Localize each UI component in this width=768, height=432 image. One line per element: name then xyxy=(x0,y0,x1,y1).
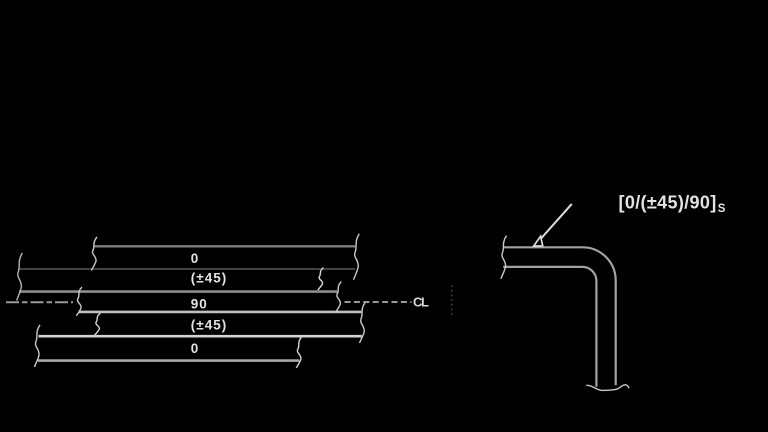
svg-text:0: 0 xyxy=(191,341,200,356)
ply4 right break xyxy=(360,302,366,343)
open arrowhead xyxy=(534,236,543,246)
symmetry plane dashed tick xyxy=(451,285,453,316)
ply1 right break xyxy=(354,234,360,280)
CL label xyxy=(413,294,429,309)
leader line xyxy=(541,204,572,238)
centerline dashes right xyxy=(345,301,412,303)
line L2 (ply1-ply2 boundary) xyxy=(20,268,356,270)
angle section inner surface xyxy=(503,267,596,387)
line L6 (ply5 bottom) xyxy=(38,359,299,362)
line L5 (ply4-ply5 boundary) xyxy=(39,335,362,338)
ply3 left break xyxy=(76,287,82,316)
ply2 left break xyxy=(17,253,23,301)
line L4 (ply3-ply4 boundary) xyxy=(79,311,362,314)
svg-text:L: L xyxy=(421,294,429,309)
ply5 right break xyxy=(296,337,302,369)
angle section outer surface xyxy=(503,247,616,385)
svg-text:(±45): (±45) xyxy=(191,271,227,286)
line L1 (ply1 top) xyxy=(94,245,356,247)
ply2 right break xyxy=(318,268,324,291)
ply4 left break xyxy=(95,313,101,335)
svg-text:90: 90 xyxy=(191,297,208,312)
svg-text:[0/(±45)/90]: [0/(±45)/90] xyxy=(619,193,717,213)
angle section bottom break xyxy=(586,385,629,391)
ply3 right break xyxy=(336,282,342,313)
ply1 left break xyxy=(91,237,97,271)
svg-text:(±45): (±45) xyxy=(191,317,227,332)
centerline dashes left xyxy=(6,301,73,303)
svg-text:0: 0 xyxy=(191,251,200,266)
line L3 (ply2-ply3 boundary) xyxy=(19,290,337,293)
svg-text:S: S xyxy=(718,203,726,215)
ply5 left break xyxy=(34,325,40,367)
angle section left break xyxy=(501,236,507,279)
